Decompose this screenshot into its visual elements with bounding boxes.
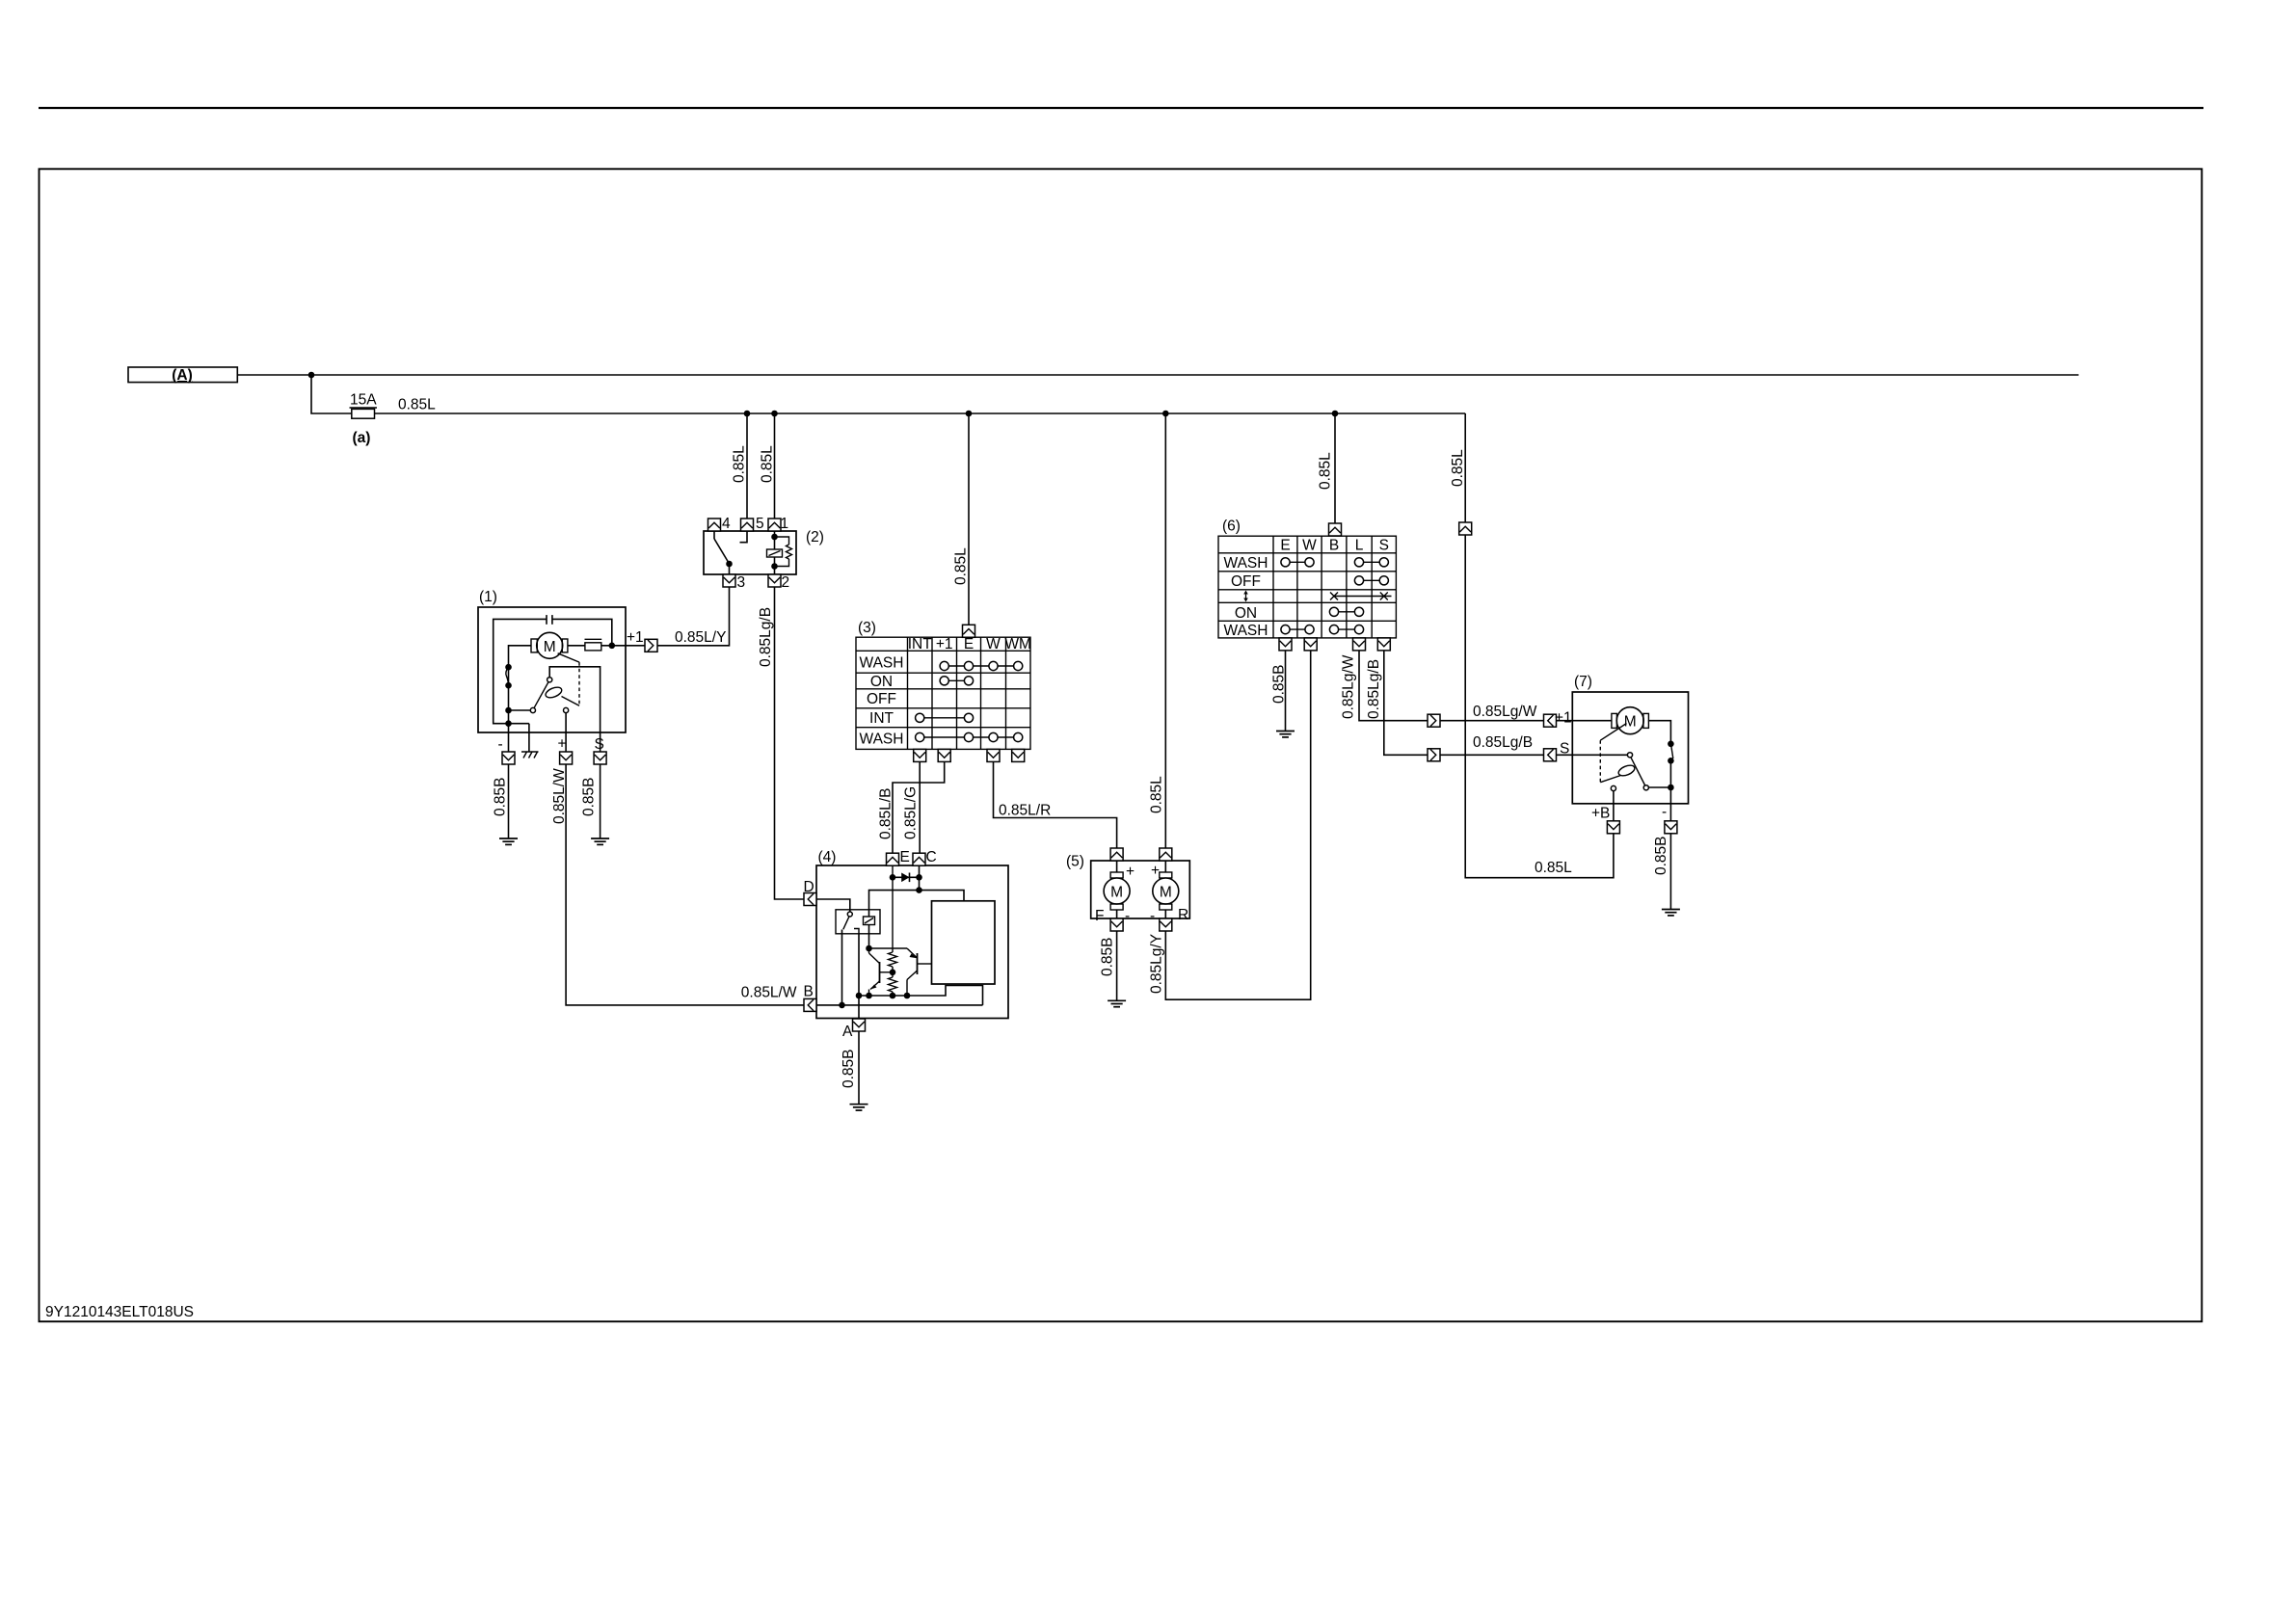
wire (3) +1 to timer (4) E: [893, 761, 945, 853]
svg-text:3: 3: [737, 574, 746, 591]
wire 0.85L/W from (1) + to timer (4) B: [566, 764, 804, 1005]
motor (1) breaker: [585, 639, 602, 651]
node motor output junction: [609, 643, 616, 650]
switch (6) ON row contacts: [1329, 607, 1363, 616]
ground (7): [1662, 910, 1680, 916]
svg-text:0.85Lg/B: 0.85Lg/B: [1473, 734, 1533, 751]
pin 4 connector of relay (2): [708, 519, 721, 531]
svg-text:E: E: [900, 849, 910, 865]
switch (3) row labels: [860, 654, 904, 747]
switch (6) WASH row contacts: [1281, 558, 1389, 567]
wire 0.85Lg/W (6) L to motor (7) +1: [1359, 651, 1572, 721]
rear motor (7): [1572, 674, 1688, 804]
timer (4) IC box: [932, 901, 996, 984]
svg-text:0.85L: 0.85L: [1318, 452, 1334, 490]
node collector rail left: [866, 945, 872, 952]
motor (1) park contact left: [530, 707, 535, 712]
svg-text:-: -: [498, 736, 503, 753]
node bus junction to switch (6) B: [1332, 411, 1339, 417]
node (7) park a: [1668, 741, 1674, 748]
page top rule: [39, 107, 2203, 109]
node bus junction to relay (2) pin 5: [744, 411, 751, 417]
wire (7) minus to ground: [1669, 834, 1671, 910]
node bus junction to switch (3) E: [966, 411, 973, 417]
motor (7) S contact: [1627, 753, 1632, 758]
svg-text:0.85Lg/W: 0.85Lg/W: [1341, 654, 1357, 719]
svg-text:M: M: [1160, 885, 1172, 901]
motor (1) park cam: [545, 685, 564, 700]
motor (1) cam dashes: [578, 662, 580, 705]
pin C connector of (4): [913, 853, 925, 865]
pin E top connector of switch (3): [963, 625, 975, 637]
wire (1) minus to ground: [508, 764, 510, 838]
node (7) park b: [1668, 758, 1674, 764]
svg-text:(A): (A): [172, 367, 193, 384]
wire park contact to + pin: [565, 713, 567, 752]
motor (1) M symbol: [531, 632, 568, 658]
pin + connector of (1): [560, 752, 573, 764]
svg-text:ON: ON: [1235, 605, 1257, 622]
wire emitter bus: [859, 986, 983, 1005]
wiper switch (3) table: [856, 637, 1030, 749]
svg-text:WM: WM: [1004, 636, 1031, 652]
svg-text:(7): (7): [1574, 674, 1592, 690]
svg-text:INT: INT: [869, 710, 894, 727]
svg-text:S: S: [1379, 538, 1389, 554]
motor (7) cam dashes: [1599, 740, 1601, 783]
svg-text:(6): (6): [1222, 519, 1241, 535]
svg-text:ON: ON: [870, 674, 893, 690]
node emitter bus A: [856, 993, 863, 999]
svg-text:L: L: [1355, 538, 1364, 554]
node bus junction to motor (5) R: [1162, 411, 1169, 417]
pin S connector of (1): [594, 752, 606, 764]
svg-text:0.85B: 0.85B: [1100, 937, 1116, 976]
wire (7) motor output: [1648, 721, 1671, 744]
motor (5) R labels: [1150, 863, 1188, 924]
switch (3) INT row contacts: [916, 713, 974, 722]
svg-text:0.85L: 0.85L: [732, 445, 748, 483]
svg-text:-: -: [1662, 804, 1667, 820]
pin R+ connector of (5): [1160, 848, 1172, 861]
switch (3) WASH row contacts: [940, 661, 1023, 670]
pin - connector of (7): [1665, 821, 1677, 834]
node diode anode: [890, 874, 896, 881]
pin +1 connector of (3): [938, 749, 950, 761]
svg-text:OFF: OFF: [1231, 573, 1261, 590]
motor (5) F labels: [1095, 864, 1135, 924]
svg-text:WASH: WASH: [860, 654, 904, 671]
svg-text:2: 2: [782, 574, 790, 591]
pin E connector of (4): [887, 853, 899, 865]
wire (3) INT to timer (4) C: [919, 761, 921, 853]
node (1) breaker contact a: [505, 664, 512, 671]
switch (6) OFF row contacts: [1354, 576, 1388, 585]
svg-text:-: -: [1125, 908, 1130, 924]
connector inline Lg/B female: [1544, 749, 1557, 761]
node (A) power feed box: [128, 367, 237, 384]
node junction on (A) line: [308, 372, 315, 379]
svg-text:0.85Lg/B: 0.85Lg/B: [1366, 659, 1382, 719]
motor (1) chassis ground wire: [528, 724, 530, 752]
node (7) park c: [1668, 785, 1674, 791]
svg-text:+: +: [1126, 864, 1135, 880]
svg-text:(a): (a): [353, 430, 371, 446]
svg-text:0.85B: 0.85B: [841, 1049, 857, 1088]
motor (7) park contact left: [1611, 785, 1615, 790]
pin A connector of (4): [853, 1019, 866, 1031]
ground (6) E: [1276, 732, 1295, 737]
pin S connector of (6): [1377, 638, 1390, 651]
svg-text:-: -: [1150, 908, 1155, 924]
svg-text:0.85L: 0.85L: [1450, 449, 1466, 487]
svg-text:0.85Lg/W: 0.85Lg/W: [1473, 704, 1537, 720]
relay (2) pin 5 fixed contact stub: [740, 531, 748, 543]
motor (7) park breaker contact: [1671, 746, 1673, 758]
svg-text:+1: +1: [936, 636, 953, 652]
pin +1 connector of (1): [645, 639, 657, 652]
node relay (2) coil top: [771, 534, 778, 541]
washer motors (5): [1066, 854, 1189, 919]
switch (6) column headers: [1280, 538, 1389, 554]
wire 0.85Lg/B (6) S to motor (7) S: [1384, 651, 1573, 755]
intermittent timer (4): [816, 849, 1008, 1019]
svg-text:E: E: [1280, 538, 1290, 554]
pin W connector of (6): [1304, 638, 1317, 651]
wire bus to relay (2) pin 1: [774, 413, 776, 519]
node emitter bus Q2: [904, 993, 911, 999]
wire bus to switch (3) E: [968, 413, 970, 625]
motor (1) internal breaker contact: [506, 667, 509, 685]
svg-text:OFF: OFF: [867, 691, 896, 707]
node (1) park contact junction: [505, 707, 512, 714]
svg-text:+1: +1: [627, 629, 644, 646]
timer (4) relay coil: [864, 917, 875, 925]
ground (1) S: [591, 838, 609, 844]
svg-text:(5): (5): [1066, 854, 1084, 870]
pin D connector of (4): [804, 893, 816, 906]
wire drop from (A) line to fuse bus: [311, 375, 352, 413]
motor (7) park cam: [1617, 763, 1637, 778]
node emitter bus divider: [890, 993, 896, 999]
timer (4) relay switch: [843, 912, 859, 934]
motor (1) park switch housing: [549, 667, 600, 752]
svg-text:0.85L: 0.85L: [1535, 860, 1572, 876]
svg-text:+1: +1: [1555, 710, 1572, 727]
switch (3) WASH2 row contacts: [916, 732, 1023, 741]
relay (2) switch common node: [726, 561, 733, 568]
motor (1) cam drive link: [558, 653, 579, 662]
ground (5) F: [1108, 1000, 1126, 1006]
pin B connector of (4): [804, 998, 816, 1011]
wire B rail inside (4): [816, 1004, 983, 1006]
svg-text:E: E: [964, 636, 974, 652]
wire park contact to minus rail: [509, 709, 531, 711]
pin E connector of (6): [1279, 638, 1292, 651]
connector inline Lg/B male: [1428, 749, 1440, 761]
relay (2) switch arm: [714, 531, 730, 574]
pin W connector of (3): [987, 749, 1000, 761]
svg-text:S: S: [1560, 741, 1569, 758]
svg-text:B: B: [1329, 538, 1339, 554]
svg-text:0.85Lg/Y: 0.85Lg/Y: [1149, 934, 1165, 994]
wire 0.85L bus to motor (7) +B: [1465, 413, 1614, 878]
svg-text:9Y1210143ELT018US: 9Y1210143ELT018US: [45, 1304, 194, 1320]
svg-text:+: +: [558, 736, 567, 753]
svg-text:+: +: [1151, 863, 1160, 879]
ground (4) A: [850, 1104, 868, 1110]
node B rail relay junction: [839, 1002, 845, 1009]
motor (1) cam lower link: [562, 697, 580, 706]
svg-text:B: B: [804, 984, 814, 1000]
svg-text:S: S: [595, 736, 604, 753]
motor (1) park switch arm: [534, 678, 552, 708]
motor (7) park contact right: [1643, 785, 1648, 790]
connector inline Lg/W female: [1544, 714, 1557, 727]
timer (4) relay box: [836, 910, 880, 934]
pin 5 connector of relay (2): [741, 519, 754, 531]
fuse (a) 15A: [350, 392, 378, 447]
svg-text:WASH: WASH: [1224, 555, 1268, 572]
svg-text:0.85L: 0.85L: [398, 397, 436, 413]
wire (7) S input: [1572, 754, 1627, 756]
svg-text:(4): (4): [818, 849, 837, 865]
wire 0.85Lg/B relay (2) pin 2 to timer (4) D: [775, 587, 806, 899]
connector inline Lg/W male: [1428, 714, 1440, 727]
wire (7) park vertical: [1669, 760, 1671, 821]
svg-text:0.85B: 0.85B: [581, 777, 598, 816]
wire 0.85L/Y to relay (2) pin 3: [657, 587, 730, 646]
svg-text:M: M: [1624, 714, 1637, 731]
node bus junction to relay (2) pin 1: [771, 411, 778, 417]
svg-text:WASH: WASH: [860, 731, 904, 747]
svg-text:0.85Lg/B: 0.85Lg/B: [758, 607, 774, 667]
svg-text:W: W: [1302, 538, 1317, 554]
svg-text:4: 4: [722, 516, 731, 532]
svg-text:0.85L: 0.85L: [953, 547, 970, 585]
relay (2): [704, 529, 824, 574]
switch (6) WASH2 row contacts: [1281, 625, 1364, 634]
wire coil feed rail: [869, 891, 965, 917]
wire (7) +B contact down: [1613, 791, 1615, 821]
wire D to relay switch: [816, 899, 850, 912]
switch (6) momentary row contacts: [1330, 593, 1392, 600]
pin L connector of (6): [1353, 638, 1366, 651]
wire motor (1) output to +1: [568, 645, 645, 647]
svg-text:(1): (1): [479, 589, 497, 605]
pin +B connector of (7): [1607, 821, 1619, 834]
svg-text:F: F: [1095, 908, 1104, 924]
timer (4) diode: [893, 873, 920, 883]
ground (1) minus: [499, 838, 518, 844]
wire (5) F- to ground: [1116, 931, 1118, 1000]
svg-text:1: 1: [781, 516, 789, 532]
wire (1) S to ground: [600, 764, 601, 838]
motor (1) armature capacitor loop: [494, 615, 612, 724]
motor (1) left brush wire: [509, 646, 532, 752]
svg-text:0.85L/B: 0.85L/B: [878, 788, 894, 839]
wire A pin from relay contact: [858, 934, 860, 1019]
pin B top connector of switch (6): [1329, 523, 1342, 536]
motor (5) R: [1153, 861, 1179, 918]
node emitter bus Q1: [866, 993, 872, 999]
svg-text:WASH: WASH: [1224, 623, 1268, 639]
pin F- connector of (5): [1110, 918, 1123, 931]
svg-text:0.85L/G: 0.85L/G: [902, 786, 919, 839]
wire 0.85L/R (3) W to washer motor (5) F: [994, 761, 1117, 848]
motor (7) cam drive link: [1600, 724, 1626, 741]
motor (7) M symbol: [1572, 707, 1648, 734]
switch (3) column headers: [908, 636, 1031, 652]
svg-text:0.85L/Y: 0.85L/Y: [675, 629, 726, 646]
pin INT connector of (3): [914, 749, 926, 761]
motor (7) park arm: [1631, 758, 1645, 785]
wire bus to relay (2) pin 5: [746, 413, 748, 519]
wire collector rail: [869, 947, 908, 949]
svg-text:5: 5: [756, 516, 764, 532]
svg-text:0.85L/R: 0.85L/R: [999, 803, 1051, 819]
svg-text:0.85L: 0.85L: [1149, 776, 1165, 813]
wire bus to switch (6) B: [1334, 413, 1336, 523]
transistor Q2: [907, 948, 932, 996]
motor (5) F: [1104, 861, 1130, 918]
pin R- connector of (5): [1160, 918, 1172, 931]
svg-text:0.85B: 0.85B: [1653, 836, 1669, 875]
wire relay switch to B rail: [841, 930, 843, 1005]
svg-text:C: C: [926, 849, 937, 865]
svg-text:R: R: [1178, 907, 1188, 923]
wire (7) park to minus rail: [1648, 786, 1670, 788]
wiper motor (1): [478, 589, 626, 732]
node diode cathode: [916, 874, 922, 881]
motor (7) cam lower link: [1600, 776, 1620, 783]
motor (1) park contact right: [564, 707, 569, 712]
svg-text:INT: INT: [908, 636, 933, 652]
svg-text:W: W: [986, 636, 1001, 652]
connector inline right 0.85L: [1459, 522, 1472, 535]
svg-text:0.85B: 0.85B: [493, 777, 509, 816]
node C on coil rail: [916, 887, 922, 893]
svg-text:15A: 15A: [350, 392, 377, 409]
diagram border frame: [40, 169, 2203, 1321]
pin 3 connector of relay (2): [723, 574, 735, 587]
wire E sense chain: [889, 865, 897, 996]
svg-text:+B: +B: [1591, 806, 1610, 822]
wire (A) feed line to right edge: [237, 374, 2078, 376]
pin - connector of (1): [502, 752, 515, 764]
svg-text:0.85L: 0.85L: [760, 445, 776, 483]
wire 0.85Lg/Y (5) R- to switch (6) W: [1165, 651, 1310, 999]
svg-text:M: M: [1110, 885, 1123, 901]
relay (2) coil circuit: [767, 531, 792, 574]
wire bus to motor (5) R+: [1164, 413, 1166, 848]
switch (6) row labels: [1224, 555, 1268, 639]
svg-text:M: M: [544, 639, 556, 655]
wire (6) E to ground: [1285, 651, 1287, 732]
wire main 0.85L bus: [375, 412, 1466, 414]
rear wiper switch (6) table: [1218, 536, 1396, 638]
svg-text:(3): (3): [858, 620, 876, 636]
wire (4) A to ground: [858, 1031, 860, 1104]
pin 2 connector of relay (2): [768, 574, 781, 587]
switch (6) updown arrow: [1243, 591, 1248, 602]
pin F+ connector of (5): [1110, 848, 1123, 861]
motor (1) chassis ground hatch: [521, 752, 539, 758]
svg-text:A: A: [842, 1024, 853, 1040]
node Q1 base / divider: [890, 970, 896, 976]
node relay (2) coil bottom: [771, 563, 778, 570]
pin WM connector of (3): [1012, 749, 1025, 761]
wire relay coil to transistors: [868, 925, 870, 949]
wire C to coil feed: [919, 865, 921, 890]
switch (3) ON row contacts: [940, 677, 974, 685]
transistor Q1: [869, 948, 894, 996]
svg-text:(2): (2): [806, 529, 824, 545]
node (1) ground loop junction: [505, 720, 512, 727]
node (1) breaker contact b: [505, 682, 512, 689]
svg-text:0.85L/W: 0.85L/W: [741, 985, 797, 1001]
pin 1 connector of relay (2): [768, 519, 781, 531]
